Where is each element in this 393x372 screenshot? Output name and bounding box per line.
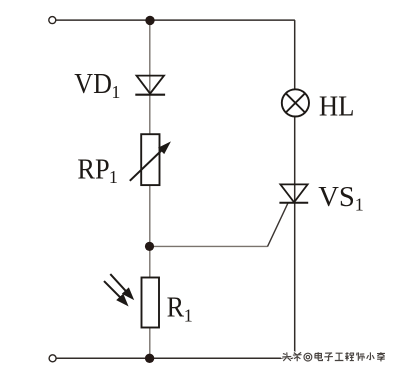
svg-text:VS: VS: [318, 181, 355, 213]
wire mid horizontal (junction to gate): [150, 245, 268, 247]
diode VD1: [135, 76, 165, 95]
node junction top: [145, 16, 154, 25]
watermark text strokes: [282, 352, 385, 361]
wire bottom rail: [56, 357, 295, 359]
wire left branch vertical: [149, 20, 151, 358]
terminal top-left: [49, 17, 56, 24]
watermark halo: [282, 352, 385, 361]
svg-text:1: 1: [355, 194, 364, 214]
svg-text:1: 1: [109, 167, 118, 187]
wire top rail: [56, 19, 295, 21]
wire right branch vertical: [294, 20, 296, 358]
svg-text:1: 1: [111, 82, 120, 102]
photoresistor R1: [104, 274, 159, 327]
potentiometer RP1: [130, 134, 170, 185]
node junction bottom: [145, 354, 154, 363]
lamp HL: [282, 89, 309, 116]
svg-text:R: R: [167, 291, 185, 323]
svg-text:VD: VD: [74, 68, 112, 100]
node junction mid: [145, 242, 154, 251]
svg-text:HL: HL: [319, 90, 355, 122]
thyristor VS1: [279, 184, 308, 202]
terminal bottom-left: [49, 355, 56, 362]
svg-text:1: 1: [184, 305, 193, 325]
svg-text:RP: RP: [77, 154, 109, 186]
wire gate diagonal: [268, 203, 289, 247]
